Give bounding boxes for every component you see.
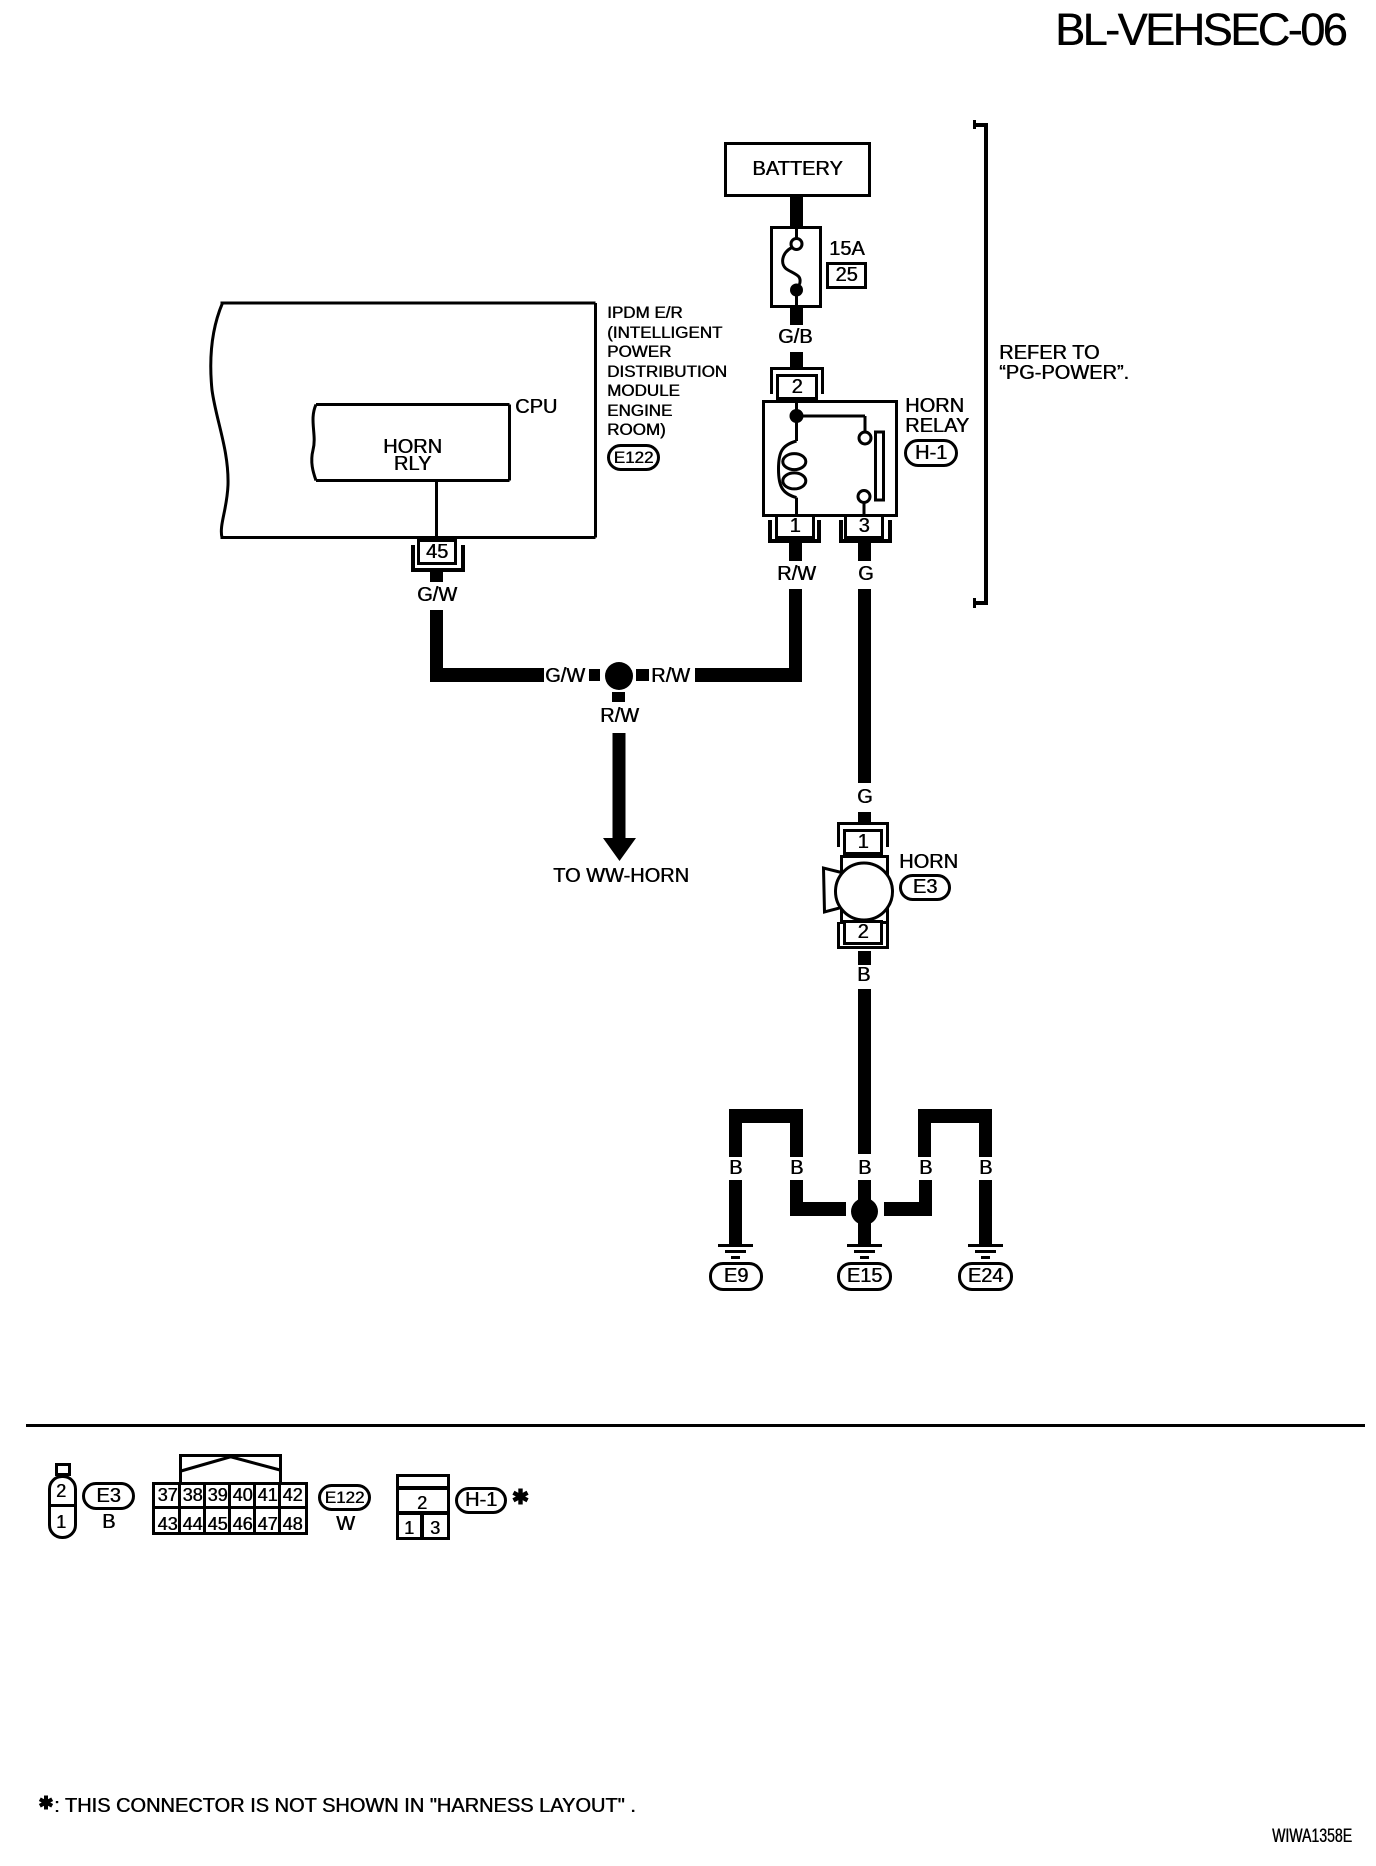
wire stub above horn connector (858, 812, 871, 822)
wire color label G (858, 564, 874, 584)
wire color label B (E9 leg) (729, 1158, 742, 1178)
wire center leg (858, 1180, 871, 1226)
wire color label B (inner right leg) (919, 1158, 932, 1178)
wire G/B to connector 2 (790, 352, 803, 367)
legend E122 oval (318, 1484, 371, 1511)
wire horizontal right from junction (695, 668, 802, 682)
wire E9 leg (729, 1180, 742, 1244)
title BL-VEHSEC-06 (1055, 7, 1345, 52)
IPDM pin 45 bracket (411, 545, 415, 572)
ground connector label E15 (837, 1262, 892, 1291)
horn connector label E3 (899, 874, 951, 901)
fuse rating label 15A (829, 239, 865, 259)
ground symbol E15 (847, 1244, 882, 1247)
ground connector label E9 (709, 1262, 763, 1291)
ground junction dot (851, 1198, 878, 1225)
wire E24 leg (979, 1180, 992, 1244)
wire color label R/W at junction (651, 666, 690, 686)
wire color label B (E24 leg) (979, 1158, 992, 1178)
wire stub below horn (858, 951, 871, 965)
wire color label B below horn (857, 965, 870, 985)
wire color label G/W (417, 585, 457, 605)
wire G/W down (430, 610, 443, 682)
IPDM E/R outer box (200, 300, 600, 542)
wire stub below pin 3 (858, 543, 871, 561)
relay pin 3 bracket (839, 520, 843, 543)
wire dash right of junction dot (636, 669, 649, 681)
wire color label R/W (777, 564, 816, 584)
wire color label G/B (778, 327, 812, 347)
relay name label (905, 396, 969, 436)
separator line (26, 1424, 1365, 1427)
ground bus left U (729, 1109, 803, 1123)
horn relay box (762, 400, 898, 517)
legend E3 oval (82, 1482, 135, 1510)
legend asterisk (511, 1488, 531, 1508)
figure code WIWA1358E (1272, 1827, 1352, 1847)
wire B down to ground junction (858, 989, 871, 1154)
legend H-1 connector symbol (396, 1474, 450, 1540)
wire stub below 45 (430, 572, 443, 582)
relay pin 1 bracket (768, 520, 772, 543)
horn connector pin 2 box (843, 920, 883, 945)
wire G down (858, 589, 871, 783)
refer-to bracket (973, 120, 976, 129)
relay pin 1 box (775, 514, 815, 539)
horn connector pin 1 box (843, 829, 883, 855)
legend H-1 oval (455, 1487, 507, 1514)
ground connector label E24 (958, 1262, 1013, 1291)
ground bus right U (918, 1109, 992, 1123)
wire battery to fuse (790, 197, 803, 226)
HORN RLY label (314, 439, 511, 473)
wire R/W down to junction (789, 589, 802, 682)
legend E3 color B (102, 1512, 115, 1532)
horn name label (899, 852, 958, 872)
wire color label R/W below junction (600, 706, 639, 726)
IPDM pin 45 box (417, 539, 457, 565)
legend E3 connector symbol (55, 1463, 71, 1476)
arrow to WW-HORN (595, 730, 645, 865)
wire inner-right elbow (919, 1180, 932, 1216)
wire color label G above horn (857, 787, 873, 807)
CPU label (515, 397, 557, 417)
CPU inner box (300, 400, 515, 485)
wire below ground junction (858, 1225, 871, 1244)
wire stub below pin 1 (789, 543, 802, 561)
wire dash left of junction dot (589, 669, 600, 681)
ground symbol E24 (968, 1244, 1003, 1247)
IPDM E/R name text (607, 303, 727, 440)
wire horizontal left to junction (430, 668, 544, 682)
wire fuse to G/B (790, 308, 803, 325)
legend E122 connector grid (152, 1482, 308, 1535)
fuse 15A box (770, 226, 822, 308)
footnote (39, 1795, 57, 1813)
horn relay internals: coil, contacts, switch blade (762, 400, 898, 517)
wire dash below junction dot (612, 692, 625, 702)
wire inner-left elbow (790, 1180, 803, 1216)
horn body (815, 850, 925, 955)
wire color label G/W at junction (545, 666, 585, 686)
battery B1 (724, 142, 871, 197)
IPDM connector label E122 (607, 444, 660, 471)
wire color label B (center leg) (858, 1158, 871, 1178)
label TO WW-HORN (553, 866, 689, 886)
relay connector pin 2 bracket (770, 367, 824, 370)
relay connector pin 2 box (776, 374, 818, 400)
legend E122 connector hood (175, 1450, 290, 1486)
fuse number box 25 (826, 262, 867, 289)
horn connector pin 2 bracket (837, 922, 840, 949)
ground symbol E9 (718, 1244, 753, 1247)
horn connector pin 1 bracket (837, 822, 889, 825)
junction dot splice (605, 662, 633, 690)
relay connector label H-1 (904, 439, 958, 467)
fuse element symbol (770, 226, 822, 308)
relay pin 3 box (844, 514, 884, 539)
legend E122 color W (336, 1514, 355, 1534)
wire color label B (inner left leg) (790, 1158, 803, 1178)
wire CPU to pin 45 (435, 482, 438, 539)
note REFER TO PG-POWER (999, 343, 1129, 383)
